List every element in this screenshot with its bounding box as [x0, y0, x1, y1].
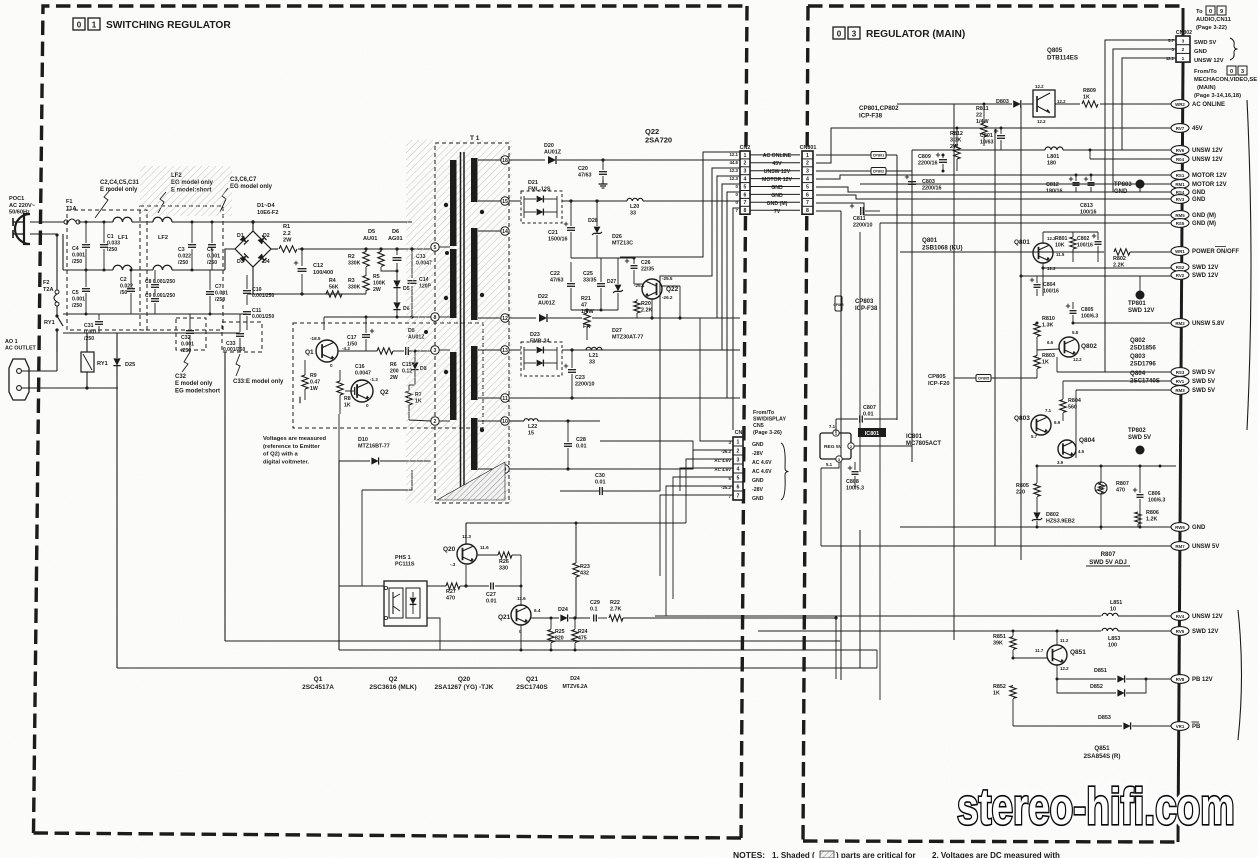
capacitor C3	[178, 221, 196, 272]
zener D26 MTZ13C	[612, 234, 633, 247]
capacitor C23 2200/10	[564, 348, 595, 398]
resistor R810 1.3K	[1034, 316, 1055, 343]
resistor R802 2.2K	[1113, 249, 1130, 269]
frame: regulator main block border	[803, 6, 1183, 842]
inductor L20 33	[627, 198, 740, 216]
transformer pin 5	[431, 243, 450, 251]
label D27 MTZ30AT-77	[612, 328, 643, 341]
transformer pin 8	[431, 313, 450, 321]
diode D10 MTZ16BT-77	[339, 437, 431, 465]
wire unsw5v row	[821, 545, 1176, 547]
transformer pin 3	[429, 346, 450, 354]
diode D803	[996, 99, 1021, 108]
wire swd12v rows	[1020, 263, 1177, 296]
resistor R7 1K	[406, 385, 422, 420]
resistor R801 10K	[1055, 232, 1076, 262]
capacitor C26 22/35	[625, 257, 654, 277]
rectifier bridge D1-D4 10E6-F2	[235, 203, 278, 267]
wire AC outlet feeds	[22, 233, 118, 389]
connector CN2	[729, 145, 750, 214]
capacitor C805 100/6.3	[1066, 302, 1099, 323]
resistor R21 47 1/4W	[581, 296, 594, 340]
wire left drop 1	[117, 388, 877, 668]
label Q801 2SB1068	[922, 237, 963, 251]
wire CN2 to CN801	[750, 155, 800, 210]
diode D851	[1056, 665, 1177, 683]
capacitor C2	[120, 269, 135, 315]
transformer pin 18	[478, 156, 509, 164]
resistor R804 560	[1060, 390, 1081, 421]
resistor R6 200 2W	[338, 348, 404, 381]
capacitor C808 100/5.3	[821, 419, 912, 546]
transformer polarity dots	[424, 203, 484, 432]
wire control top	[466, 522, 686, 545]
watermark stereo-hifi.com	[957, 778, 1235, 835]
label Q22 2SA720	[645, 127, 672, 145]
bus main right	[1178, 8, 1183, 842]
wire CN801 rows	[816, 128, 1176, 215]
capacitor C25 33/35	[583, 258, 605, 310]
transistor Q1	[305, 336, 350, 368]
label Q851 2SA854S	[1084, 745, 1121, 760]
wire CN1 feeds	[655, 318, 733, 616]
fuse CP802	[816, 168, 912, 175]
inductor L22 15	[509, 419, 600, 437]
dashed box LF1 group	[67, 210, 147, 330]
capacitor C801 10/63	[980, 127, 1005, 151]
transformer T1 core	[461, 152, 465, 498]
transformer pin 11	[478, 394, 509, 402]
transformer pin 12	[478, 314, 509, 322]
diode block D23 FMB-24	[509, 332, 740, 376]
capacitor C13	[393, 247, 432, 266]
inductor LF2	[153, 217, 172, 270]
transistor Q22	[634, 276, 679, 300]
transformer pin 2	[409, 417, 450, 425]
resistor R3 330K	[348, 267, 369, 294]
ic label IC801 black	[858, 428, 886, 437]
inductor L853 100	[758, 628, 1176, 648]
fuse CP805	[928, 374, 1037, 387]
capacitor C27 0.01	[466, 583, 521, 607]
diode D24	[531, 607, 590, 622]
note From/To 03 MECHACON	[1194, 66, 1257, 99]
hatch transformer shield	[437, 462, 505, 500]
capacitor C22 47/63	[550, 262, 575, 310]
wire ac online top	[897, 78, 1176, 104]
capacitor C16	[345, 364, 371, 395]
wire gnd row	[900, 526, 1176, 529]
pot R807 470	[1095, 466, 1129, 530]
inductor L851 10	[656, 600, 1176, 616]
label CN802 nets	[1194, 38, 1238, 64]
diode D20 AU01Z	[509, 143, 740, 164]
testpoint TP803 GND	[1114, 180, 1145, 196]
relay contact RY1	[44, 306, 63, 352]
fuse F2 T2A	[43, 234, 59, 306]
resistor R811 22 1/4W	[976, 103, 1021, 147]
connector POC1 AC plug	[9, 196, 36, 244]
resistor R22 2.7K	[609, 600, 838, 621]
connector CN802	[1166, 30, 1192, 62]
dashed box C33	[222, 322, 262, 352]
optocoupler PHS1 PC111S	[384, 555, 427, 626]
label Q802-804 types	[1130, 337, 1160, 384]
ic IC801 REG 5V	[820, 424, 854, 467]
capacitor C33	[223, 314, 245, 353]
wire control joins	[427, 523, 525, 585]
resistor R812 3.3K 2W	[950, 127, 963, 172]
label IC801 MC7805ACT	[906, 434, 941, 447]
wire box03 verticals	[841, 104, 1021, 700]
wire filter low rail	[63, 270, 247, 333]
label CP801 CP802 ICP-F38	[859, 105, 899, 119]
transistor Q851	[1013, 630, 1086, 672]
inductor L21 33	[586, 347, 602, 365]
wire AC line bottom	[30, 234, 253, 294]
wire power onoff	[900, 251, 1176, 253]
label Q805 DTB114ES	[1047, 47, 1078, 61]
capacitor C20	[578, 158, 608, 188]
brace CN1 group	[781, 443, 789, 500]
wire secondary 12	[509, 317, 536, 319]
diode D22 AU01Z	[538, 294, 740, 330]
capacitor C812 180/16	[1046, 174, 1095, 195]
title 03 REGULATOR (MAIN)	[833, 27, 965, 40]
capacitor C30 0.01	[560, 473, 660, 495]
diode D852	[1057, 678, 1148, 697]
hatch transformer zone	[406, 140, 512, 503]
capacitor C802 100/16	[1043, 232, 1102, 262]
transistor Q802	[1047, 330, 1097, 362]
dashed box LF2 group	[140, 206, 223, 330]
wire Q2 drop	[339, 414, 384, 650]
capacitor C803 2200/16	[905, 175, 942, 199]
diode block D21 FML-12S	[509, 180, 627, 223]
transistor Q804	[1057, 437, 1095, 465]
resistor R805 220	[1016, 465, 1040, 509]
wire control bottom	[339, 618, 877, 652]
dashed box C32	[176, 318, 206, 350]
wire unsw12v 2	[1089, 149, 1177, 160]
label transistor list	[302, 676, 588, 691]
wire D10 loop	[362, 470, 412, 586]
resistor R5 100K 2W	[373, 247, 399, 292]
transformer pin 9	[478, 465, 509, 473]
zener D28	[588, 199, 602, 258]
dashed box Q1 Q2 driver	[293, 323, 483, 428]
note C3,C6,C7 EG model only	[220, 177, 273, 212]
wire CN802 feeds	[1105, 40, 1176, 372]
transistor Q21	[498, 596, 541, 634]
resistor R20 2.2K	[634, 299, 653, 318]
transistor Q801	[1014, 236, 1065, 271]
transformer pin 15	[478, 197, 509, 205]
capacitor C5	[72, 270, 90, 316]
transformer pin 13	[478, 346, 509, 354]
transistor Q2	[351, 377, 389, 408]
capacitor C8	[145, 270, 175, 296]
wire secondary 9	[509, 467, 600, 470]
capacitor C31	[84, 314, 103, 342]
relay coil RY1	[81, 333, 108, 388]
wire secondary 11	[509, 396, 740, 399]
testpoint TP801 SWD 12V	[1128, 276, 1154, 314]
wire swd5v rows	[1057, 357, 1176, 458]
transistor Q803	[1014, 408, 1061, 439]
capacitor C811 2200/10	[850, 204, 1176, 229]
capacitor C813 100/16	[1080, 203, 1097, 216]
transformer T1 secondary bars	[471, 158, 478, 470]
wire left drop 2	[225, 352, 840, 641]
capacitor C14	[408, 247, 432, 317]
fuse CP803	[833, 296, 878, 312]
wire bundle to CN2	[600, 152, 740, 491]
note From/To SW DISPLAY CN5	[753, 410, 786, 436]
capacitor C7	[206, 270, 228, 316]
wire AC line top	[78, 220, 412, 231]
resistor R1	[279, 224, 297, 252]
resistor R25 820	[548, 618, 565, 650]
capacitor C12	[294, 247, 333, 295]
inductor L801 180	[912, 147, 1176, 167]
hatch filter label zone	[140, 166, 232, 216]
note C2,C4,C5,C31 E model only	[95, 180, 140, 218]
note C33 E model only	[233, 354, 284, 385]
capacitor C6	[207, 221, 220, 271]
fuse CP801	[816, 152, 897, 159]
resistor R809 1K	[1082, 88, 1098, 107]
resistor R23 432	[573, 523, 590, 618]
resistor R9	[298, 360, 320, 403]
transistor Q20	[443, 534, 489, 567]
capacitor C804 100/16	[1030, 276, 1059, 296]
resistor R24 475	[572, 616, 588, 650]
transformer pin 10	[478, 417, 509, 425]
wire Q22 links	[571, 258, 682, 320]
transformer T1 box	[435, 135, 509, 503]
capacitor C807 0.01	[836, 405, 897, 430]
wire bundle bottom	[836, 530, 860, 679]
wire HV rail	[271, 248, 431, 250]
testpoint TP802 SWD 5V	[1128, 428, 1151, 466]
capacitor C15	[402, 347, 429, 374]
capacitor C1	[100, 221, 120, 272]
capacitor C11	[243, 308, 274, 330]
capacitor C806 100/6.3	[1133, 466, 1166, 527]
wire unsw58	[1072, 322, 1177, 325]
resistor R26 330	[477, 552, 523, 588]
transformer pin 14	[478, 227, 509, 235]
capacitor C29 0.1	[590, 600, 607, 622]
wire swd5v net	[1037, 465, 1176, 468]
note LF2 EG model only	[158, 173, 214, 213]
inductor LF1	[113, 217, 132, 270]
label R807 SWD 5V ADJ	[1086, 551, 1130, 566]
label CN2-CN801 nets	[762, 153, 792, 215]
fuse F1 T1A	[30, 199, 80, 224]
terminal ovals right bus	[1171, 100, 1239, 731]
diode D25	[87, 333, 135, 388]
resistor R27 470	[427, 565, 468, 602]
capacitor C17	[347, 316, 374, 352]
capacitor C21 1500/16	[548, 199, 575, 258]
note NOTES line	[733, 850, 1060, 858]
capacitor C10	[243, 275, 274, 305]
resistor R852 1K	[993, 657, 1016, 727]
note C32 E model only	[175, 352, 220, 394]
resistor R8 1K	[337, 370, 351, 414]
wire low rail mid	[247, 294, 435, 330]
connector CN1	[714, 430, 745, 500]
diode D8 AU01Z	[408, 328, 427, 385]
connector CN801	[800, 145, 817, 214]
title 01 SWITCHING REGULATOR	[73, 18, 231, 31]
transformer T1 primary bars	[450, 160, 457, 420]
capacitor C809 2200/16	[918, 153, 947, 173]
resistor R806 1.2K	[1135, 510, 1159, 527]
capacitor C28 0.01	[564, 419, 587, 469]
capacitor C9	[145, 293, 175, 314]
label CN1 nets	[752, 442, 772, 502]
zener D802 HZS3.9EB2	[1032, 508, 1075, 527]
capacitor C32	[181, 314, 194, 354]
note voltages measured	[263, 436, 327, 465]
note To 09 AUDIO CN11	[1196, 6, 1232, 31]
transistor Q805 block	[1033, 84, 1066, 124]
diode D5 AU01	[363, 229, 410, 302]
capacitor C4	[72, 221, 90, 272]
brace right groups	[1238, 100, 1251, 740]
resistor R851 39K	[993, 630, 1016, 659]
resistor R803 1K	[1034, 343, 1059, 378]
resistor R4 56K	[326, 278, 342, 297]
frame: switching regulator block border	[34, 6, 748, 838]
connector AO1 AC OUTLET	[5, 339, 37, 400]
diode D853	[1013, 715, 1176, 730]
resistor R2 330K	[348, 247, 369, 266]
zener D27	[607, 258, 623, 310]
diode D6 AG01	[388, 229, 410, 317]
